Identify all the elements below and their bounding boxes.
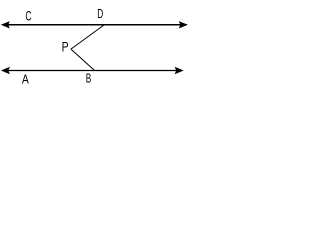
- line CD (top horizontal line): [4, 24, 184, 26]
- svg-text:A: A: [22, 71, 29, 86]
- arrowhead left of line AB: [1, 67, 10, 74]
- segment DP: [71, 25, 104, 49]
- svg-text:D: D: [97, 6, 103, 21]
- arrowhead right of line AB: [175, 67, 184, 74]
- svg-text:C: C: [25, 8, 31, 24]
- segment PB: [71, 49, 95, 70]
- arrowhead left of line CD: [1, 21, 10, 28]
- arrowhead right of line CD: [179, 21, 188, 28]
- svg-text:B: B: [86, 71, 92, 86]
- line AB (bottom horizontal line): [4, 70, 180, 72]
- svg-text:P: P: [62, 40, 69, 55]
